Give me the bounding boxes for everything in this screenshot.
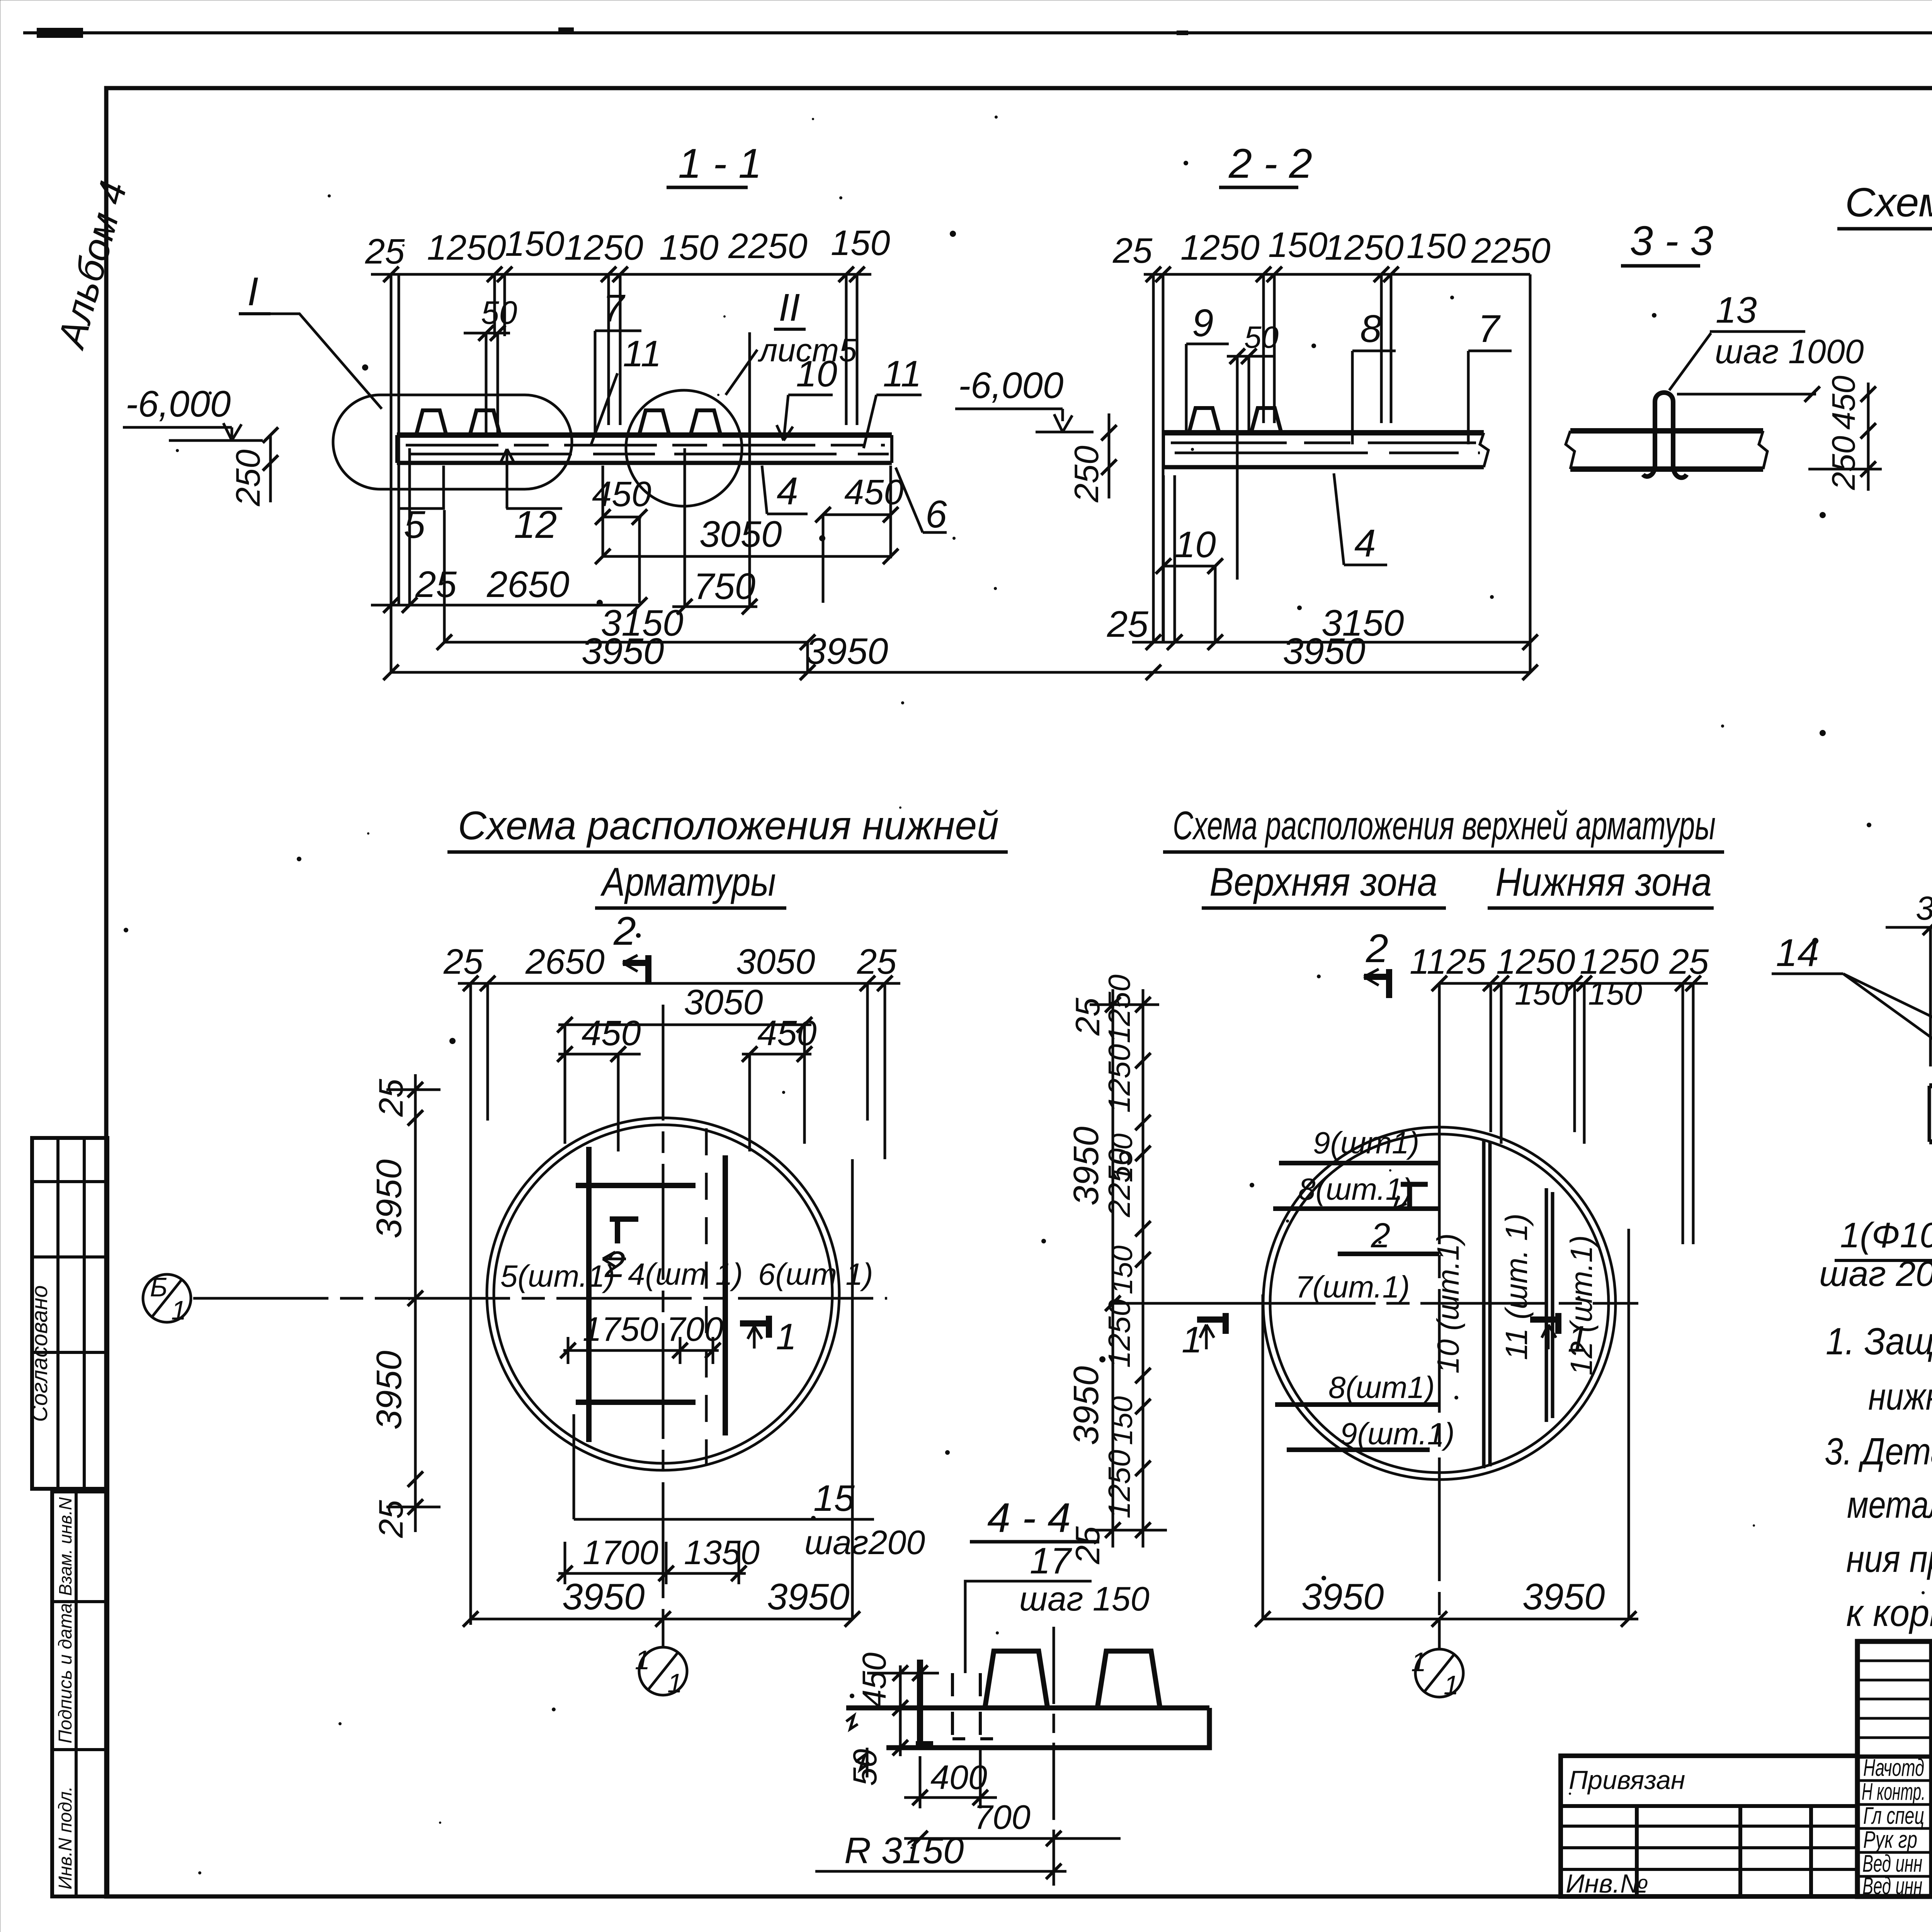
svg-text:250: 250 [1067, 446, 1105, 503]
svg-text:2250: 2250 [1102, 1148, 1136, 1218]
svg-text:25: 25 [1107, 604, 1148, 645]
svg-text:700: 700 [974, 1798, 1031, 1836]
svg-text:25: 25 [1112, 231, 1153, 270]
svg-text:7(шт.1): 7(шт.1) [1295, 1270, 1410, 1304]
svg-text:Вед инн: Вед инн [1862, 1873, 1922, 1900]
svg-text:3950: 3950 [1066, 1366, 1106, 1445]
svg-text:1250: 1250 [1102, 975, 1136, 1043]
svg-text:150: 150 [1106, 1245, 1139, 1294]
svg-text:2250: 2250 [728, 226, 808, 266]
svg-text:Схема расположения нижней: Схема расположения нижней [458, 803, 999, 848]
svg-text:Подпись и дата: Подпись и дата [55, 1603, 76, 1743]
svg-text:1250: 1250 [1325, 228, 1404, 267]
svg-text:4: 4 [1354, 522, 1376, 565]
svg-text:1125: 1125 [1410, 942, 1486, 981]
svg-text:11: 11 [883, 353, 922, 395]
svg-text:250: 250 [1825, 436, 1862, 490]
svg-text:1: 1 [667, 1668, 682, 1698]
svg-text:к корпусу приямка.: к корпусу приямка. [1846, 1592, 1932, 1634]
svg-text:металлического приямка см.: металлического приямка см. альбом 3, В м… [1847, 1483, 1932, 1526]
svg-text:Верхняя зона: Верхняя зона [1209, 860, 1437, 905]
svg-text:1250: 1250 [1180, 228, 1260, 267]
svg-text:Взам. инв.N: Взам. инв.N [55, 1497, 75, 1596]
svg-text:Альбом 4: Альбом 4 [49, 177, 135, 354]
svg-text:700: 700 [667, 1310, 723, 1348]
svg-text:150: 150 [659, 228, 719, 267]
svg-text:4 - 4: 4 - 4 [987, 1494, 1071, 1541]
svg-text:10: 10 [1175, 524, 1216, 565]
svg-text:I: I [247, 269, 259, 314]
svg-text:250: 250 [229, 449, 267, 507]
svg-text:1250: 1250 [1102, 1299, 1136, 1368]
svg-text:15: 15 [813, 1478, 855, 1519]
svg-text:Инв.N подл.: Инв.N подл. [55, 1786, 76, 1889]
svg-text:3950: 3950 [806, 631, 888, 672]
svg-text:1250: 1250 [1102, 1450, 1136, 1519]
svg-text:шаг 1000: шаг 1000 [1715, 332, 1864, 371]
svg-text:1700: 1700 [583, 1533, 658, 1571]
svg-text:2650: 2650 [486, 564, 570, 605]
svg-text:шаг 150: шаг 150 [1019, 1580, 1150, 1618]
svg-text:25: 25 [365, 232, 405, 271]
svg-text:25: 25 [372, 1500, 410, 1538]
svg-text:1250: 1250 [1102, 1044, 1136, 1113]
svg-text:1: 1 [1411, 1647, 1426, 1677]
svg-text:6: 6 [925, 493, 947, 536]
svg-text:1: 1 [1568, 1318, 1588, 1360]
svg-text:2650: 2650 [525, 942, 605, 981]
svg-text:3950: 3950 [1522, 1576, 1605, 1617]
svg-text:Начотд: Начотд [1863, 1755, 1924, 1781]
svg-text:3950: 3950 [369, 1350, 409, 1430]
svg-text:150: 150 [831, 223, 890, 263]
svg-text:11 (шт. 1): 11 (шт. 1) [1499, 1213, 1534, 1360]
svg-text:3950: 3950 [369, 1159, 409, 1238]
svg-text:Гл спец: Гл спец [1863, 1803, 1924, 1829]
svg-text:нижней -35мм, верхней - 20мм.: нижней -35мм, верхней - 20мм. [1868, 1375, 1932, 1418]
svg-text:1: 1 [1182, 1319, 1202, 1361]
svg-text:7: 7 [603, 287, 626, 330]
svg-text:Привязан: Привязан [1569, 1765, 1685, 1795]
svg-text:13: 13 [1716, 289, 1757, 331]
svg-text:2 - 2: 2 - 2 [1228, 140, 1312, 187]
svg-text:1: 1 [1444, 1670, 1459, 1700]
svg-text:14: 14 [1776, 931, 1819, 975]
svg-text:150: 150 [505, 224, 565, 264]
svg-text:8(шт1): 8(шт1) [1328, 1370, 1435, 1405]
svg-text:4: 4 [777, 469, 798, 513]
svg-text:50: 50 [1244, 320, 1279, 354]
svg-text:1250: 1250 [564, 228, 643, 267]
svg-text:Н контр.: Н контр. [1862, 1779, 1925, 1805]
svg-text:450: 450 [1825, 376, 1862, 430]
svg-text:R 3150: R 3150 [844, 1830, 964, 1871]
svg-text:Арматуры: Арматуры [600, 860, 776, 905]
svg-text:450: 450 [844, 473, 904, 512]
svg-text:шаг 200: шаг 200 [1819, 1254, 1932, 1294]
svg-text:3950: 3950 [1066, 1126, 1106, 1206]
svg-text:2: 2 [1371, 1216, 1390, 1255]
svg-text:450: 450 [856, 1652, 893, 1708]
svg-text:3950: 3950 [767, 1576, 850, 1617]
svg-text:25: 25 [415, 564, 457, 605]
svg-text:300: 300 [1916, 890, 1932, 927]
svg-text:-6,000: -6,000 [126, 383, 231, 425]
svg-text:150: 150 [1268, 225, 1328, 265]
svg-text:8: 8 [1360, 307, 1382, 350]
svg-text:1. Защитный слой бетона для ра: 1. Защитный слой бетона для рабочей арма… [1826, 1320, 1932, 1362]
svg-text:Схема расположения верхней арм: Схема расположения верхней арматуры [1173, 803, 1716, 848]
svg-text:750: 750 [694, 566, 755, 607]
svg-text:1: 1 [635, 1645, 650, 1675]
svg-text:4(шт 1): 4(шт 1) [628, 1257, 743, 1291]
svg-text:450: 450 [582, 1014, 641, 1053]
svg-text:150: 150 [1106, 1396, 1139, 1445]
svg-text:6(шт 1): 6(шт 1) [758, 1257, 873, 1291]
svg-text:25: 25 [1068, 1526, 1107, 1565]
svg-text:шаг200: шаг200 [804, 1523, 925, 1561]
svg-text:1750: 1750 [583, 1310, 658, 1348]
svg-text:3050: 3050 [699, 514, 782, 555]
svg-text:Рук гр: Рук гр [1863, 1827, 1917, 1853]
svg-text:1350: 1350 [684, 1533, 760, 1571]
svg-text:2: 2 [613, 909, 636, 954]
svg-text:400: 400 [930, 1758, 987, 1796]
svg-text:3050: 3050 [684, 983, 763, 1022]
svg-text:25: 25 [1068, 997, 1107, 1036]
svg-text:Инв.№: Инв.№ [1566, 1869, 1648, 1898]
svg-text:Б: Б [150, 1272, 168, 1302]
svg-text:9(шт1): 9(шт1) [1313, 1126, 1419, 1160]
svg-text:3950: 3950 [582, 631, 664, 672]
svg-text:3950: 3950 [1283, 631, 1366, 672]
svg-text:Согласовано: Согласовано [27, 1285, 52, 1422]
svg-text:-6,000: -6,000 [958, 365, 1063, 406]
svg-text:II: II [779, 286, 800, 329]
svg-text:1(Ф10А: 1(Ф10А [1840, 1216, 1932, 1255]
svg-text:3950: 3950 [1301, 1576, 1384, 1617]
svg-text:10: 10 [796, 353, 837, 395]
svg-text:ния приямка арматуру выреза: ния приямка арматуру вырезать по месту и… [1846, 1537, 1932, 1580]
svg-text:2: 2 [1366, 926, 1388, 971]
svg-text:5(шт.1): 5(шт.1) [500, 1259, 615, 1293]
svg-text:2250: 2250 [1471, 231, 1551, 270]
svg-text:450: 450 [592, 474, 651, 514]
svg-text:3950: 3950 [562, 1576, 645, 1617]
svg-text:9(шт.1): 9(шт.1) [1340, 1417, 1455, 1451]
svg-text:7: 7 [1478, 307, 1501, 350]
svg-text:1: 1 [776, 1316, 796, 1357]
svg-text:1 - 1: 1 - 1 [678, 140, 762, 187]
svg-text:150: 150 [1588, 975, 1642, 1012]
svg-text:1250: 1250 [427, 228, 506, 267]
svg-text:50: 50 [481, 294, 517, 331]
svg-text:450: 450 [757, 1014, 817, 1053]
svg-text:25: 25 [372, 1078, 410, 1117]
svg-text:11: 11 [623, 333, 662, 374]
svg-text:3. Деталь установки дренажно: 3. Деталь установки дренажного приямка и… [1825, 1430, 1932, 1473]
svg-text:1: 1 [171, 1295, 186, 1325]
svg-text:150: 150 [1406, 226, 1466, 266]
svg-text:9: 9 [1192, 301, 1214, 345]
svg-text:17: 17 [1030, 1540, 1072, 1582]
svg-text:150: 150 [1515, 975, 1569, 1012]
svg-text:Нижняя зона: Нижняя зона [1495, 860, 1712, 905]
svg-text:Схема расположения выпусков: Схема расположения выпусков [1845, 180, 1932, 225]
svg-text:3 - 3: 3 - 3 [1630, 217, 1713, 264]
svg-text:3050: 3050 [736, 942, 815, 981]
